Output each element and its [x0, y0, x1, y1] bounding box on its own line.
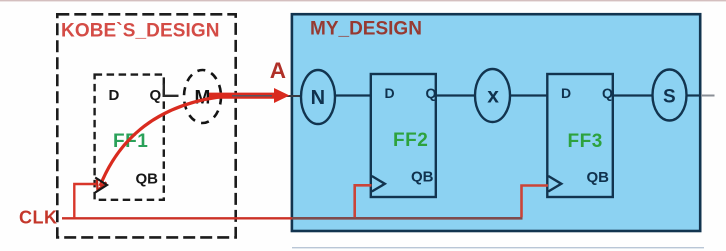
svg-text:MY_DESIGN: MY_DESIGN [310, 19, 422, 40]
wire N to FF2 [335, 94, 372, 96]
svg-text:QB: QB [587, 169, 610, 186]
wire M to N [218, 95, 303, 97]
clock wedge FF1 [95, 178, 107, 193]
wire CLK branch FF2 [355, 185, 372, 217]
red curve arrow to FF1 clock [100, 96, 232, 187]
clock wedge FF3 [548, 176, 561, 192]
svg-text:FF2: FF2 [393, 130, 428, 151]
svg-text:D: D [385, 85, 395, 101]
svg-text:A: A [270, 58, 286, 83]
block MY_DESIGN box [292, 14, 700, 231]
svg-text:Q: Q [426, 85, 437, 101]
svg-text:KOBE`S_DESIGN: KOBE`S_DESIGN [61, 21, 220, 42]
svg-text:FF1: FF1 [113, 131, 148, 152]
node S ellipse [653, 70, 687, 121]
wire S to output [687, 94, 702, 96]
node M dashed ellipse [184, 70, 221, 123]
svg-text:Q: Q [602, 85, 613, 101]
svg-text:x: x [487, 85, 499, 108]
red arrow M to A to N [209, 93, 276, 99]
node N ellipse [301, 70, 335, 124]
svg-text:Q: Q [150, 87, 162, 104]
wire CLK main line [62, 217, 292, 219]
svg-text:D: D [561, 85, 571, 101]
svg-text:N: N [311, 87, 325, 109]
wire CLK branch FF1 [74, 184, 96, 218]
flip-flop FF3 box [547, 74, 613, 197]
svg-text:D: D [109, 87, 120, 104]
svg-text:QB: QB [136, 171, 159, 188]
svg-text:CLK: CLK [19, 208, 58, 228]
flip-flop FF1 dashed box [95, 75, 164, 200]
wire X to FF3 [510, 94, 548, 96]
block KOBE'S_DESIGN dashed box [57, 14, 235, 237]
flip-flop FF2 box [371, 74, 436, 197]
svg-text:FF3: FF3 [568, 131, 603, 152]
wire CLK branch FF3 [522, 186, 549, 218]
wire Q to M connector [164, 84, 179, 96]
wire FF2 to X [436, 94, 475, 96]
svg-text:S: S [663, 87, 676, 108]
clock wedge FF2 [372, 176, 385, 192]
wire FF3 to S [613, 94, 653, 96]
node X ellipse [475, 69, 510, 122]
svg-text:QB: QB [411, 169, 434, 186]
